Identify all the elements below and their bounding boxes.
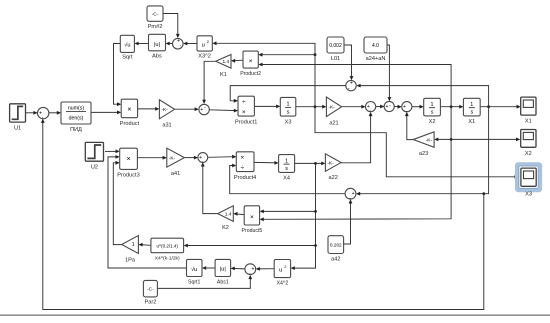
sum junction sumA (366, 102, 376, 112)
wire junction to Product5 top input (261, 210, 316, 212)
wire Product4 to X4 (254, 161, 277, 164)
page separator line (0, 314, 550, 316)
wire 1Pa to Product3 bottom input (113, 163, 121, 245)
svg-text:1.4: 1.4 (225, 211, 232, 217)
wire sumC to X2 (412, 106, 423, 108)
wire sumB to sumC (394, 106, 401, 108)
product block Product (121, 99, 137, 118)
wire Product to a31 (138, 108, 159, 110)
svg-text:-C-: -C- (152, 11, 159, 17)
svg-text:-K-: -K- (426, 137, 433, 143)
wire X1 down to sumD right input (357, 107, 488, 194)
wire U2 to Product3 top input (105, 150, 119, 152)
svg-text:Product4: Product4 (234, 175, 256, 181)
abs block Abs1 (215, 259, 231, 276)
sum junction sumE (173, 38, 184, 49)
scope X1 (521, 97, 536, 115)
wire Sqrt1 to Product3 middle input (108, 157, 187, 268)
product block Product1 (divide, multiply) (238, 96, 254, 116)
svg-text:+: + (251, 267, 254, 273)
svg-text:U2: U2 (91, 164, 98, 170)
junction X3 output (314, 105, 317, 108)
sum junction sumD (345, 188, 356, 199)
svg-text:1: 1 (431, 102, 434, 108)
gain 1Pa (mirrored) (122, 236, 139, 254)
svg-text:Product1: Product1 (235, 119, 257, 125)
svg-text:×: × (249, 58, 253, 65)
svg-text:K2: K2 (222, 225, 229, 231)
wire a22 up to sumA bottom (341, 113, 371, 163)
svg-text:Product5: Product5 (242, 228, 263, 234)
wire sumA to sumB (376, 106, 384, 108)
svg-text:+: + (385, 104, 388, 110)
wire X2 up to Product2 lower input (260, 65, 452, 107)
wire X4 down chain (292, 163, 316, 268)
svg-text:X4: X4 (283, 176, 290, 182)
svg-text:X1: X1 (525, 119, 532, 125)
sum junction sum1 (error) (38, 107, 49, 118)
svg-text:|u|: |u| (154, 42, 160, 48)
constant L01 (327, 37, 344, 53)
svg-text:÷: ÷ (242, 99, 246, 106)
svg-text:1: 1 (470, 102, 473, 108)
transfer function PID (61, 102, 91, 124)
svg-text:-C-: -C- (147, 286, 154, 292)
svg-text:Product: Product (120, 121, 140, 127)
wire Product2 to K1 (232, 59, 243, 62)
svg-text:Abs1: Abs1 (217, 279, 229, 285)
svg-text:-K-: -K- (161, 107, 168, 113)
wire bottom feedback to sum1 (43, 120, 484, 310)
svg-text:a31: a31 (162, 123, 171, 129)
svg-text:×: × (250, 214, 254, 221)
wire X2 down to Product5 lower input (261, 107, 451, 220)
wire X3 to a21 with junction (296, 106, 325, 108)
svg-text:×: × (126, 156, 130, 163)
svg-text:X4^2: X4^2 (277, 280, 289, 286)
gain K1 (mirrored) (216, 55, 231, 69)
wire X4 power block to 1Pa (140, 244, 151, 247)
wire Pm#2 to sumE top (163, 14, 178, 38)
wire X3^2 to sumE (184, 43, 197, 45)
sqrt block Sqrt (120, 35, 134, 52)
svg-text:K1: K1 (220, 72, 227, 78)
gain a22 (325, 154, 341, 172)
product block Product2 (mirrored) (243, 51, 258, 68)
svg-text:1Pa: 1Pa (125, 257, 136, 263)
constant Pm#2 (147, 6, 163, 21)
svg-text:1: 1 (287, 102, 290, 108)
sum junction sumTop (L01 plus X1) (346, 80, 356, 90)
junction X4 output (314, 162, 317, 165)
svg-text:Abs: Abs (152, 54, 162, 60)
step source U1 (10, 104, 26, 122)
wire K1 to sum2 top (204, 61, 216, 103)
sum junction sumB (384, 101, 394, 111)
step source U2 (85, 142, 103, 161)
wire junction to Product2 upper input (260, 54, 316, 56)
wire Product1 to X3 (254, 105, 279, 107)
wire sumD to Product4 lower input (230, 166, 345, 194)
wire Par2 to sumF bottom (157, 276, 250, 288)
wire a23 to sumC bottom (407, 113, 413, 140)
integrator X1 (463, 98, 480, 116)
wire X4^2 to sumF (257, 268, 274, 270)
svg-text:Par2: Par2 (144, 300, 156, 306)
svg-text:Sqrt1: Sqrt1 (188, 279, 201, 285)
svg-text:√u: √u (124, 42, 130, 49)
constant Par2 (143, 280, 157, 297)
wire U1 to sum1 (26, 112, 38, 114)
junction X4 to power block (314, 244, 317, 247)
wire sum1 to PID (49, 112, 60, 114)
abs block Abs (149, 34, 166, 51)
sum junction sumC (402, 102, 412, 112)
svg-text:√u: √u (191, 266, 197, 273)
svg-text:u: u (202, 43, 205, 49)
wire sum2 to Product1 x input (209, 109, 237, 112)
svg-text:L01: L01 (331, 56, 340, 62)
wire sumTop to Product1 div input (230, 86, 346, 101)
svg-text:4.0: 4.0 (372, 43, 379, 49)
gain K2 (mirrored) (218, 206, 234, 222)
svg-text:X2: X2 (429, 119, 436, 125)
svg-text:Product3: Product3 (117, 172, 139, 178)
wire sumE to Abs (167, 43, 173, 45)
svg-text:+: + (352, 191, 355, 197)
svg-text:Product2: Product2 (240, 71, 261, 77)
junction X3 to Product2 (314, 53, 317, 56)
wire X1 up to sumTop right input (358, 86, 489, 107)
svg-text:Sqrt: Sqrt (122, 55, 133, 61)
sqrt block Sqrt1 (187, 259, 203, 276)
svg-text:X1: X1 (468, 119, 475, 125)
wire X3 branch down to scope X3 (315, 107, 518, 177)
wire a21 to sumA (342, 106, 365, 108)
gain a23 (mirrored) (413, 132, 434, 148)
wire X4 to a22 (295, 162, 325, 164)
wire Product5 to K2 (235, 213, 245, 216)
junction X2 tap for a23 and scope X2 (450, 138, 453, 141)
svg-text:ПИД: ПИД (70, 127, 82, 133)
sum junction sum3 (198, 153, 208, 163)
integrator X2 (424, 98, 441, 116)
wire a42 to sumD bottom (344, 200, 351, 244)
svg-text:-K-: -K- (328, 105, 335, 111)
svg-text:s: s (431, 110, 434, 116)
square block X4^2 (274, 260, 290, 278)
svg-text:a23: a23 (419, 151, 428, 157)
svg-text:|u|: |u| (220, 267, 226, 273)
wire X2 to X1 (440, 106, 462, 108)
svg-text:s: s (285, 166, 288, 172)
scope X2 (521, 130, 536, 148)
wire K2 to sum2row bottom (203, 163, 218, 213)
svg-text:a21: a21 (329, 120, 338, 126)
wire a31 to sum2 (175, 108, 198, 110)
wire Product3 to a41 (137, 157, 165, 159)
product block Product3 (three inputs) (120, 148, 138, 169)
svg-text:a41: a41 (171, 171, 180, 177)
svg-text:num(s): num(s) (68, 106, 84, 112)
wire Abs to Sqrt (136, 43, 149, 45)
gain a31 (159, 100, 174, 119)
svg-text:÷: ÷ (241, 165, 245, 172)
svg-text:X3: X3 (525, 192, 532, 198)
gain a21 (326, 97, 341, 117)
svg-text:s: s (287, 109, 290, 115)
wire sum2row to Product4 top input (208, 156, 236, 159)
wire X3 branch up to X3^2 and Product2 (214, 43, 316, 106)
svg-text:u^(0.2/1.4): u^(0.2/1.4) (157, 244, 179, 249)
sum junction sumF (245, 264, 256, 275)
integrator X4 (279, 155, 295, 173)
svg-text:a24+aN: a24+aN (366, 56, 386, 62)
wire a23 and scope X2 line (435, 138, 519, 140)
junction X1 output (487, 105, 490, 108)
svg-text:1: 1 (285, 158, 288, 164)
wire sumF to Abs1 (232, 267, 245, 270)
junction bottom feedback (482, 192, 485, 195)
svg-text:a22: a22 (329, 175, 338, 181)
wire Sqrt to Product upper input (114, 44, 121, 105)
integrator X3 (280, 97, 296, 116)
power block X4^(k-1/2k) (151, 238, 184, 253)
wire L01 to sumTop (344, 45, 352, 79)
sum junction sum2 (199, 104, 209, 114)
svg-text:Pm#2: Pm#2 (148, 24, 163, 30)
scope X3 selected (517, 164, 541, 191)
svg-text:+: + (200, 107, 203, 113)
gain a41 (167, 148, 185, 167)
wire PID to Product lower input (91, 111, 120, 113)
junction X2 output (450, 105, 453, 108)
svg-text:U1: U1 (14, 125, 21, 131)
svg-text:u: u (279, 267, 282, 273)
svg-text:den(s): den(s) (69, 116, 84, 122)
svg-text:×: × (242, 109, 246, 116)
constant a42 (328, 236, 344, 254)
svg-text:-K-: -K- (169, 155, 176, 161)
svg-text:-K-: -K- (327, 160, 334, 166)
svg-text:0.002: 0.002 (329, 43, 342, 49)
product block Product5 (mirrored) (244, 206, 259, 225)
junction X4 to Product5 (314, 210, 317, 213)
svg-text:1: 1 (132, 242, 135, 248)
wire X1 to scope X1 (480, 106, 519, 108)
svg-text:+: + (350, 80, 353, 86)
product block Product4 (multiply, divide) (236, 152, 254, 172)
svg-text:X4^(k-1/2k): X4^(k-1/2k) (155, 256, 180, 262)
wire Abs1 to Sqrt1 (203, 267, 215, 269)
svg-text:X2: X2 (525, 151, 532, 157)
svg-text:×: × (241, 155, 245, 162)
wire a41 to sum2row (184, 157, 197, 159)
constant a24+aN (364, 37, 387, 53)
wire a24aN to sumB top (387, 45, 389, 100)
svg-text:X3^2: X3^2 (198, 54, 211, 60)
svg-text:a42: a42 (331, 256, 340, 262)
wire junction to X4 power block input (185, 245, 316, 247)
svg-text:×: × (127, 106, 131, 113)
svg-text:1.4: 1.4 (222, 59, 229, 65)
svg-text:s: s (470, 110, 473, 116)
square block X3^2 (197, 36, 212, 51)
svg-text:0.202: 0.202 (330, 242, 342, 247)
svg-text:X3: X3 (285, 119, 292, 125)
